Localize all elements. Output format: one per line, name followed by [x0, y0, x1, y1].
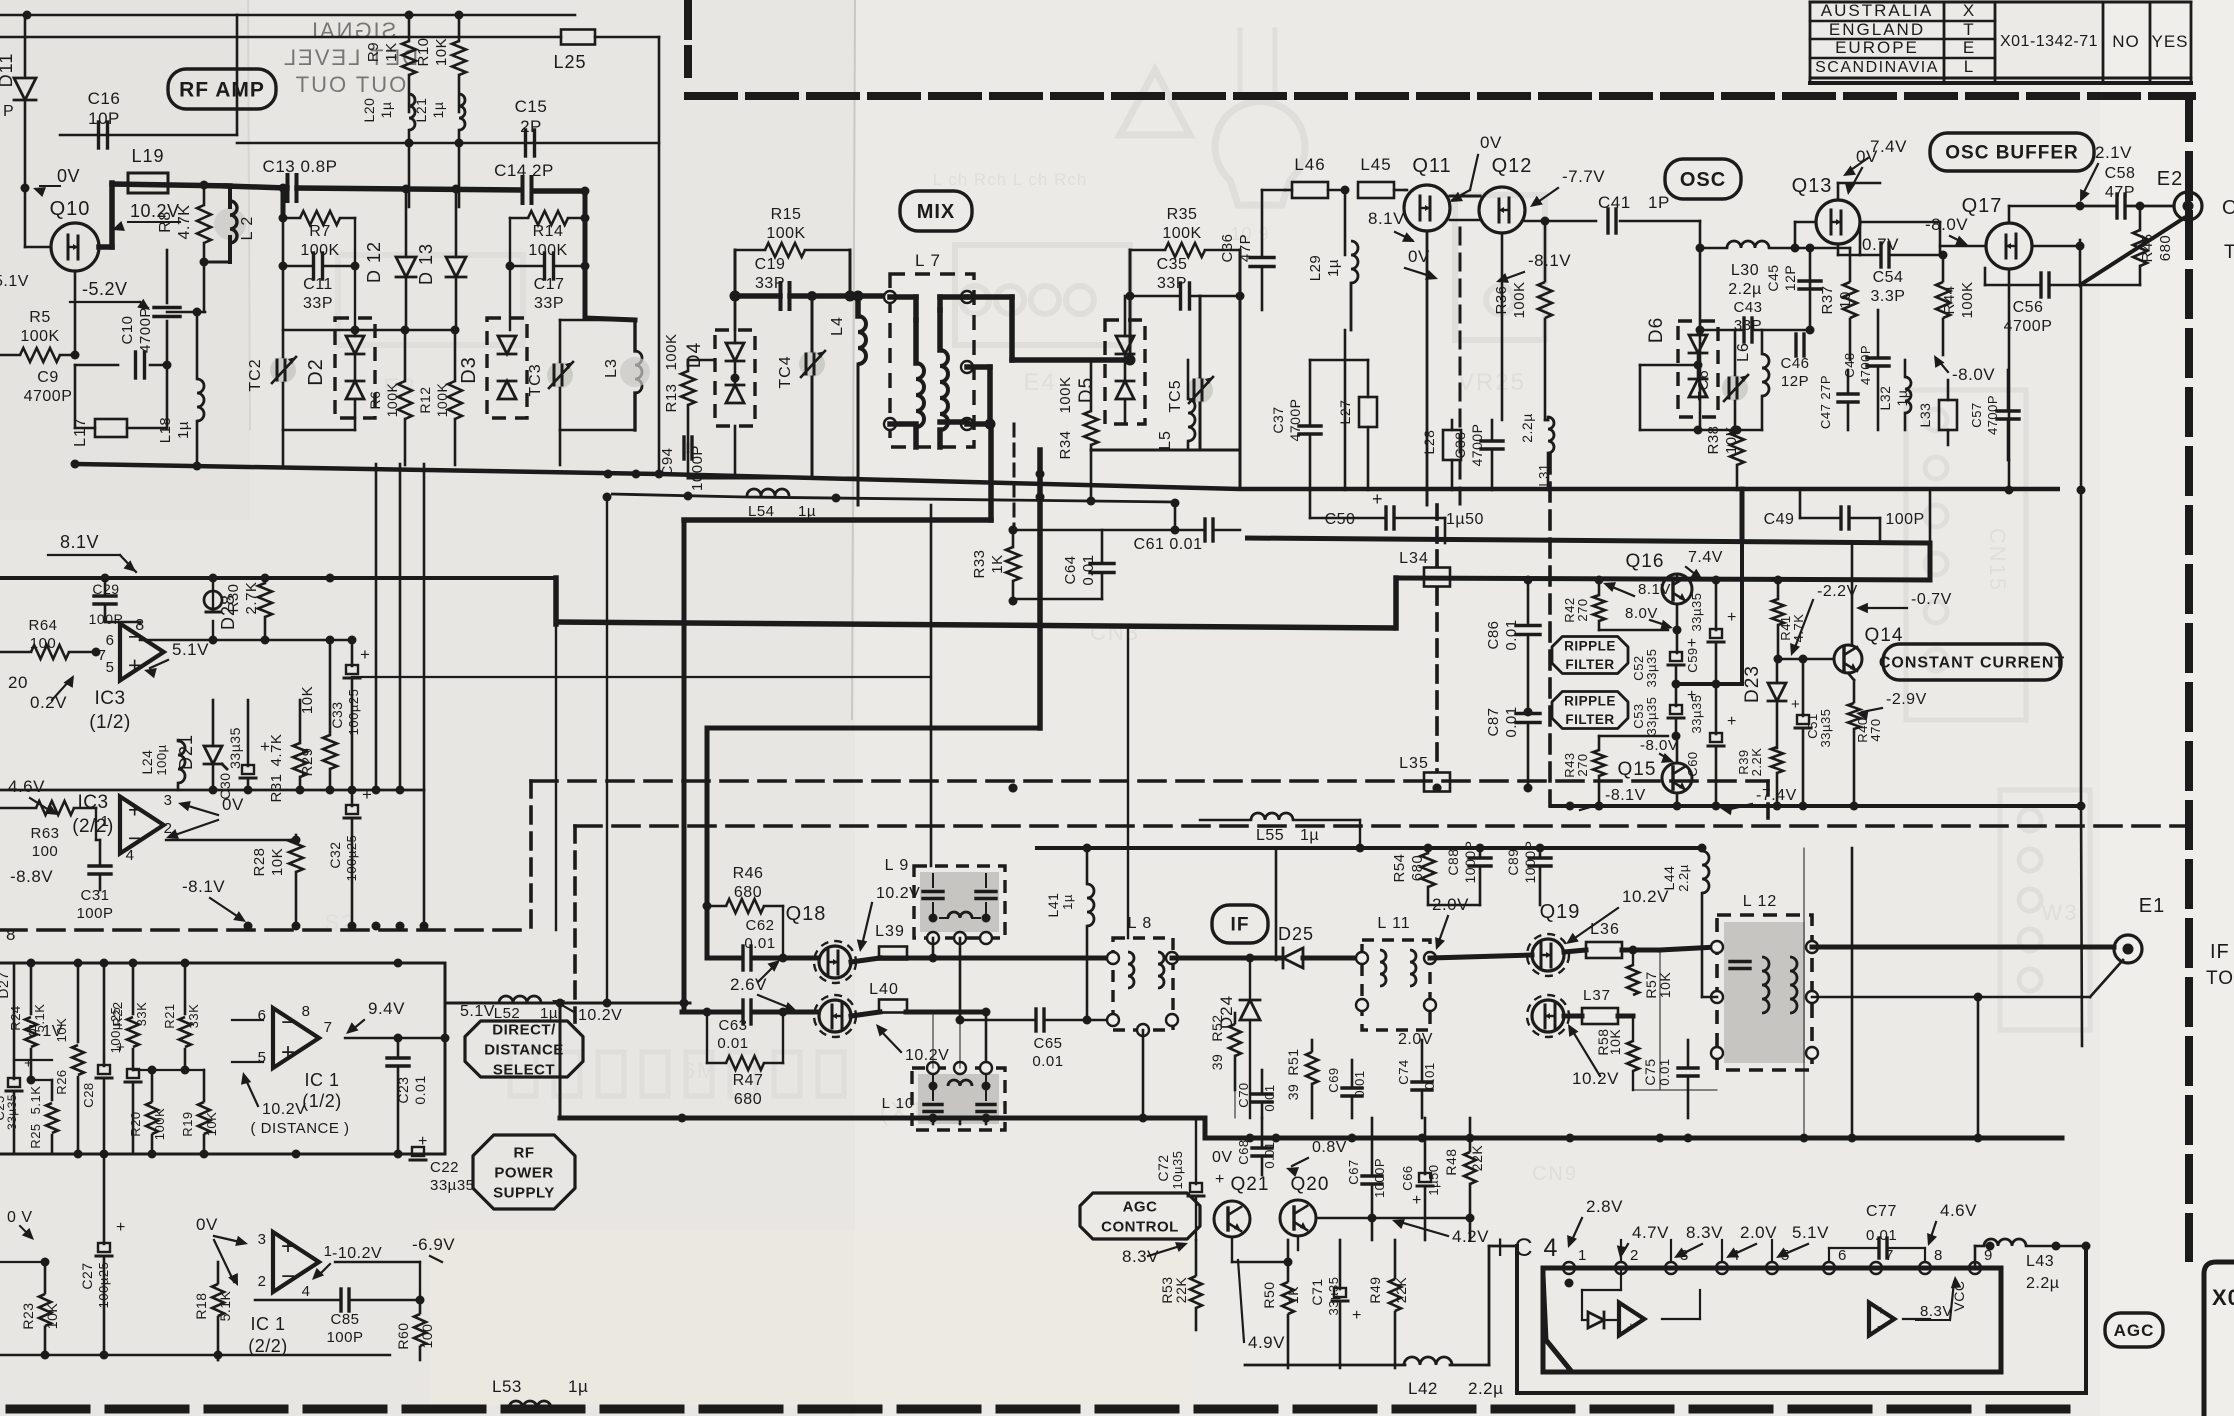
- wire: [1929, 490, 1932, 543]
- wire: [1812, 960, 2123, 1002]
- wire: [932, 938, 935, 958]
- svg-text:Q20: Q20: [1291, 1174, 1330, 1195]
- wire: [967, 367, 996, 430]
- inductor L44: [1661, 848, 1709, 997]
- svg-text:C14 2P: C14 2P: [494, 161, 554, 180]
- dashed wire: [575, 824, 2188, 828]
- bus RF bottom: [75, 464, 2060, 489]
- capacitor C53: [1631, 684, 1697, 741]
- svg-text:R31: R31: [268, 773, 285, 802]
- svg-text:R48: R48: [1443, 1148, 1459, 1175]
- svg-text:2.0V: 2.0V: [1740, 1223, 1777, 1242]
- capacitor C17: [510, 253, 585, 312]
- svg-text:1µ: 1µ: [175, 421, 192, 439]
- svg-text:33P: 33P: [755, 275, 785, 292]
- svg-text:RIPPLE: RIPPLE: [1564, 693, 1616, 708]
- svg-text:2.1V: 2.1V: [2095, 143, 2132, 162]
- wire: [0, 1258, 50, 1267]
- label 4.9V: [1238, 1260, 1285, 1352]
- svg-text:R18: R18: [193, 1292, 209, 1319]
- wire: [423, 464, 426, 926]
- svg-text:Q21: Q21: [1231, 1174, 1270, 1195]
- wire: [906, 954, 1113, 963]
- transistor Q18b: [814, 995, 856, 1037]
- wire: [1125, 296, 1136, 366]
- svg-text:100K: 100K: [434, 382, 450, 417]
- wire: [166, 836, 301, 845]
- svg-text:L53: L53: [492, 1377, 522, 1396]
- svg-text:0.8V: 0.8V: [1312, 1139, 1347, 1156]
- varactor D4: [684, 296, 755, 426]
- wire: [1428, 904, 1480, 906]
- svg-text:10K: 10K: [1657, 972, 1673, 999]
- svg-text:0.01: 0.01: [412, 1075, 428, 1104]
- svg-text:IC 1: IC 1: [250, 1314, 285, 1334]
- svg-text:8.3V: 8.3V: [1122, 1247, 1159, 1266]
- svg-text:L36: L36: [1590, 921, 1620, 938]
- svg-text:0V: 0V: [1212, 1149, 1233, 1166]
- wire: [96, 808, 100, 840]
- svg-text:L33: L33: [1917, 403, 1933, 428]
- varactor D5: [1076, 296, 1145, 424]
- wire: [1172, 956, 1260, 961]
- resistor R41: [1772, 576, 1806, 660]
- svg-text:-10.2V: -10.2V: [332, 1245, 382, 1262]
- trimmer TC4: [777, 296, 825, 478]
- wire: [807, 291, 864, 302]
- inductor L46: [1285, 155, 1345, 198]
- wire: [982, 1008, 991, 1069]
- wire: [1009, 526, 1204, 535]
- inductor L31: [1519, 413, 1554, 490]
- svg-text:C13 0.8P: C13 0.8P: [263, 157, 338, 176]
- label 0V: [166, 795, 244, 839]
- svg-text:33P: 33P: [534, 295, 564, 312]
- svg-text:R63: R63: [30, 825, 59, 842]
- capacitor C77: [1829, 1201, 1977, 1262]
- svg-text:4.2V: 4.2V: [1452, 1227, 1489, 1246]
- wire: [444, 963, 447, 1154]
- svg-text:1000P: 1000P: [689, 445, 706, 491]
- IC4 diode: [1582, 1268, 1621, 1328]
- svg-text:RF: RF: [514, 1144, 535, 1161]
- svg-text:0V: 0V: [57, 166, 80, 186]
- svg-text:5.1K: 5.1K: [28, 1086, 43, 1115]
- resistor R22: [110, 963, 149, 1070]
- inductor L45: [1358, 155, 1405, 198]
- wire: [0, 36, 561, 39]
- svg-text:100K: 100K: [528, 242, 567, 259]
- svg-text:3: 3: [258, 1231, 267, 1248]
- wire: [1127, 628, 1129, 938]
- bus: [105, 577, 556, 579]
- svg-text:C22: C22: [430, 1159, 459, 1176]
- svg-text:C38: C38: [1452, 431, 1468, 458]
- label 10.2V distance: [241, 1072, 350, 1137]
- svg-text:2.2µ: 2.2µ: [1676, 864, 1691, 892]
- wire: [1659, 948, 1661, 1090]
- svg-text:8: 8: [1934, 1247, 1943, 1264]
- dashed shield border top vertical: [684, 0, 692, 74]
- svg-text:C71: C71: [1309, 1278, 1325, 1305]
- inductor L3: [560, 320, 650, 465]
- svg-text:C94: C94: [659, 447, 676, 476]
- wire: [1860, 222, 1940, 255]
- capacitor C22b: [125, 1069, 141, 1154]
- svg-text:R60: R60: [395, 1322, 411, 1349]
- svg-text:P: P: [3, 103, 14, 120]
- svg-text:100K: 100K: [1959, 281, 1976, 318]
- inductor L27: [1337, 360, 1377, 490]
- varactor D3: [458, 318, 527, 418]
- capacitor C28: [81, 963, 125, 1154]
- svg-text:R5: R5: [29, 309, 50, 326]
- svg-text:X01-1342-71: X01-1342-71: [2000, 33, 2098, 50]
- svg-text:Q18: Q18: [786, 903, 827, 925]
- capacitor C47: [1818, 370, 1858, 430]
- svg-text:R49: R49: [1367, 1276, 1383, 1303]
- svg-text:100K: 100K: [1162, 225, 1201, 242]
- svg-text:0.01: 0.01: [1657, 1058, 1672, 1085]
- svg-text:R14: R14: [533, 223, 564, 240]
- IF filter L8: [1107, 915, 1178, 1036]
- wire: [1806, 244, 1815, 335]
- svg-text:+: +: [1877, 1303, 1885, 1318]
- svg-text:C16: C16: [88, 89, 121, 108]
- resistor R54: [1391, 848, 1435, 905]
- label -8.0V: [0, 0, 1, 1]
- capacitor C52: [1631, 635, 1697, 689]
- wire: [1430, 955, 1532, 958]
- svg-text:R34: R34: [1057, 430, 1074, 459]
- transistor Q21: [1214, 1174, 1269, 1237]
- wire: [445, 999, 689, 1008]
- wire: [2008, 269, 2011, 460]
- label 0V: [1845, 147, 1878, 195]
- resistor R53: [1159, 1240, 1202, 1330]
- wire: [1234, 1090, 1236, 1118]
- svg-text:Q12: Q12: [1492, 155, 1533, 177]
- svg-text:Q15: Q15: [1618, 759, 1657, 780]
- transistor Q18: [786, 903, 856, 983]
- wire: [1341, 186, 1350, 256]
- svg-text:0V: 0V: [222, 795, 244, 814]
- resistor R13: [663, 333, 715, 448]
- svg-text:L55: L55: [1256, 827, 1284, 844]
- svg-text:1µ: 1µ: [568, 1377, 588, 1396]
- transistor Q11: [1404, 155, 1452, 231]
- svg-text:D 13: D 13: [416, 243, 436, 285]
- capacitor C60: [1685, 684, 1737, 811]
- svg-text:C32: C32: [327, 841, 343, 868]
- svg-text:10.2V: 10.2V: [262, 1101, 306, 1118]
- svg-text:-7.7V: -7.7V: [1562, 167, 1605, 186]
- svg-text:100P: 100P: [1885, 511, 1924, 528]
- svg-text:R12: R12: [417, 386, 433, 413]
- resistor R42: [1562, 576, 1682, 635]
- svg-text:C67: C67: [1346, 1159, 1361, 1184]
- svg-text:10K: 10K: [1607, 1029, 1623, 1056]
- svg-text:L34: L34: [1399, 550, 1429, 567]
- svg-text:TC3: TC3: [527, 363, 544, 396]
- capacitor C69: [1326, 1060, 1367, 1118]
- varactor D2: [305, 318, 375, 418]
- svg-text:0.01: 0.01: [1080, 554, 1097, 585]
- svg-text:D11: D11: [0, 53, 16, 88]
- inductor L53: [492, 1377, 588, 1408]
- capacitor C49: [1764, 490, 1925, 543]
- svg-text:IC3: IC3: [77, 792, 108, 813]
- main bus: [0, 576, 556, 580]
- capacitor C51: [1791, 659, 1833, 811]
- svg-text:L 10: L 10: [882, 1095, 915, 1112]
- svg-text:D25: D25: [1278, 924, 1314, 944]
- svg-text:R7: R7: [309, 223, 330, 240]
- svg-text:7.4V: 7.4V: [1688, 549, 1723, 566]
- capacitor C70: [1236, 1070, 1277, 1118]
- trimmer TC3: [527, 320, 573, 430]
- svg-text:10K: 10K: [269, 848, 286, 876]
- svg-text:-6.9V: -6.9V: [412, 1235, 455, 1254]
- svg-text:+: +: [1627, 1319, 1635, 1334]
- resistor R47: [703, 1008, 788, 1109]
- label -2.2V: [1790, 583, 1858, 656]
- svg-text:20: 20: [8, 673, 28, 692]
- svg-text:33µ35: 33µ35: [1689, 593, 1704, 632]
- label -7.7V: [1530, 167, 1605, 207]
- section bubble RIPPLE FILTER b: [1552, 692, 1628, 729]
- resistor R9: [365, 15, 416, 112]
- section label RF AMP: [168, 69, 276, 109]
- svg-text:C61 0.01: C61 0.01: [1134, 536, 1203, 553]
- capacitor C22: [410, 1133, 475, 1194]
- label 0.2V: [30, 675, 74, 712]
- label 0V: [196, 1215, 248, 1286]
- label 10.2V: [1568, 1024, 1619, 1088]
- svg-text:12P: 12P: [1782, 265, 1798, 291]
- capacitor C29: [89, 574, 124, 628]
- svg-text:R9: R9: [365, 42, 382, 62]
- svg-text:L42: L42: [1408, 1379, 1438, 1398]
- resistor R37: [1819, 248, 1857, 360]
- svg-text:-8.0V: -8.0V: [1925, 215, 1968, 234]
- wire: [556, 999, 565, 1119]
- wire: [1426, 490, 1429, 505]
- svg-text:-5.2V: -5.2V: [82, 279, 128, 299]
- svg-text:TC6: TC6: [1695, 369, 1712, 400]
- svg-text:-8.0V: -8.0V: [1952, 365, 1995, 384]
- svg-text:680: 680: [734, 1091, 762, 1108]
- label 5.1V: [1776, 1223, 1829, 1258]
- svg-text:470: 470: [1868, 718, 1883, 741]
- svg-text:AUSTRALIA: AUSTRALIA: [1821, 1, 1933, 20]
- svg-text:2.2µ: 2.2µ: [1519, 413, 1535, 443]
- svg-text:L45: L45: [1360, 155, 1391, 174]
- diode D24: [1217, 954, 1260, 1119]
- transistor Q14: [1834, 625, 1903, 673]
- capacitor C94: [659, 437, 706, 491]
- svg-text:ENGLAND: ENGLAND: [1829, 20, 1925, 39]
- wire: [553, 578, 559, 624]
- wire: [99, 183, 112, 247]
- svg-text:IC3: IC3: [94, 688, 125, 709]
- svg-text:4700P: 4700P: [1985, 395, 2000, 435]
- svg-text:TO: TO: [2224, 242, 2234, 263]
- svg-text:C57: C57: [1969, 402, 1984, 427]
- diode D23: [1742, 659, 1786, 748]
- svg-text:2P: 2P: [520, 117, 542, 136]
- svg-text:5.1V: 5.1V: [1792, 1223, 1829, 1242]
- label 8: [6, 925, 16, 944]
- wire: [0, 14, 237, 17]
- capacitor C9: [24, 352, 167, 405]
- dashed shield L34-L35: [1009, 505, 1442, 793]
- inductor L24: [139, 740, 185, 790]
- wire: [2077, 285, 2086, 811]
- svg-text:100µ: 100µ: [154, 744, 169, 775]
- svg-text:100K: 100K: [1511, 281, 1528, 318]
- label -7.4V: [1720, 787, 1797, 815]
- resistor R38: [1705, 425, 1744, 490]
- svg-text:22K: 22K: [1173, 1277, 1189, 1304]
- section bubble RIPPLE FILTER a: [1552, 637, 1628, 674]
- inductor L2: [200, 187, 257, 267]
- svg-text:7: 7: [324, 1019, 333, 1036]
- label 5.1V fragment: [0, 273, 29, 290]
- wire: [1310, 360, 1548, 420]
- capacitor C14: [494, 161, 554, 203]
- svg-text:4.7V: 4.7V: [1632, 1223, 1669, 1242]
- inductor L40: [851, 981, 986, 1016]
- svg-text:+: +: [418, 1133, 428, 1150]
- wire: [1501, 233, 1504, 420]
- svg-text:(1/2): (1/2): [89, 712, 131, 733]
- svg-text:C27: C27: [79, 1262, 95, 1289]
- svg-text:C85: C85: [330, 1311, 359, 1328]
- label 2.0V: [1398, 1031, 1433, 1048]
- section label IF: [1212, 905, 1268, 943]
- thick bus: [1036, 450, 1045, 728]
- resistor R14: [510, 211, 585, 259]
- wire: [1660, 947, 1717, 950]
- svg-text:NO: NO: [2112, 32, 2140, 51]
- IF transformer L12: [1711, 893, 1818, 1070]
- wire: [163, 308, 206, 370]
- wire: [1940, 245, 1986, 248]
- svg-text:+: +: [128, 652, 142, 678]
- svg-text:5.1K: 5.1K: [217, 1290, 233, 1321]
- svg-text:100K: 100K: [300, 242, 339, 259]
- wire: [1633, 1089, 1717, 1091]
- svg-text:9.4V: 9.4V: [368, 999, 405, 1018]
- wire: [1838, 244, 1860, 255]
- svg-text:R44: R44: [1941, 285, 1958, 314]
- dashed wire: [531, 779, 1768, 783]
- bus AGC2: [1205, 1118, 2062, 1143]
- svg-text:C46: C46: [1780, 355, 1809, 372]
- svg-text:0 V: 0 V: [7, 1209, 33, 1226]
- capacitor C38: [1452, 420, 1503, 490]
- svg-text:2.2µ: 2.2µ: [1728, 281, 1761, 298]
- wire: [0, 1351, 390, 1360]
- svg-text:+: +: [24, 1055, 33, 1072]
- wire: [851, 958, 933, 962]
- wire: [1297, 1236, 1299, 1250]
- collector wire: [1851, 543, 1854, 645]
- svg-text:6: 6: [258, 1007, 267, 1024]
- label 10.2V: [112, 201, 180, 231]
- label 10.2V: [552, 1000, 622, 1024]
- resistor R15: [735, 206, 850, 257]
- label 5.1V: [144, 640, 209, 678]
- capacitor C45: [1765, 264, 1821, 291]
- svg-text:C49: C49: [1764, 511, 1795, 528]
- svg-text:12P: 12P: [1781, 373, 1809, 390]
- svg-text:C23: C23: [395, 1076, 411, 1103]
- svg-text:-8.1V: -8.1V: [1605, 787, 1646, 804]
- inductor L42: [1245, 1357, 1503, 1398]
- svg-text:R37: R37: [1819, 285, 1836, 314]
- svg-text:+: +: [1791, 696, 1800, 713]
- svg-text:R29: R29: [299, 747, 316, 776]
- capacitor C33: [329, 640, 370, 790]
- svg-text:+: +: [128, 796, 142, 822]
- svg-text:100K: 100K: [663, 333, 680, 370]
- svg-text:R64: R64: [28, 617, 57, 634]
- wire: [1676, 604, 1679, 653]
- svg-text:C50: C50: [1325, 511, 1356, 528]
- svg-text:R8: R8: [157, 211, 174, 232]
- svg-text:L32: L32: [1877, 386, 1893, 411]
- svg-text:L24: L24: [139, 750, 155, 775]
- svg-text:SELECT: SELECT: [493, 1061, 555, 1078]
- svg-text:FILTER: FILTER: [1565, 712, 1614, 727]
- dashed wire: [529, 781, 533, 930]
- wire: [1673, 793, 1682, 811]
- base wire: [1774, 655, 1834, 664]
- svg-text:L: L: [1964, 57, 1974, 76]
- svg-text:2.8V: 2.8V: [1586, 1197, 1623, 1216]
- resistor R26: [54, 963, 84, 1154]
- svg-text:L52: L52: [494, 1005, 521, 1022]
- svg-text:270: 270: [1575, 753, 1590, 776]
- svg-text:R26: R26: [54, 1069, 69, 1094]
- dashed wire: [1766, 781, 1770, 826]
- capacitor C32: [327, 785, 372, 926]
- section label AGC CONTROL: [1080, 1193, 1200, 1239]
- svg-text:100P: 100P: [89, 611, 124, 627]
- wire: [595, 36, 659, 39]
- IC4 op-amp A: [1619, 1290, 1700, 1336]
- svg-text:1P: 1P: [1648, 193, 1670, 212]
- wire y=497 L54: [611, 489, 1175, 520]
- inductor L30: [1700, 241, 1810, 298]
- svg-text:C70: C70: [1236, 1082, 1251, 1107]
- label 8.0V: [1625, 605, 1673, 630]
- svg-text:39: 39: [1209, 1054, 1225, 1071]
- svg-text:39: 39: [1285, 1084, 1301, 1101]
- wire: [1316, 1214, 1475, 1223]
- svg-text:+: +: [1215, 1171, 1225, 1188]
- wire: [236, 15, 239, 135]
- label -5.2V: [70, 279, 150, 310]
- svg-text:7.4V: 7.4V: [1870, 137, 1907, 156]
- svg-text:-0.7V: -0.7V: [1911, 591, 1952, 608]
- svg-text:100K: 100K: [1057, 376, 1074, 413]
- bus -7.4V: [1551, 802, 2082, 811]
- inductor L29: [1307, 241, 1358, 330]
- svg-text:L44: L44: [1661, 866, 1677, 891]
